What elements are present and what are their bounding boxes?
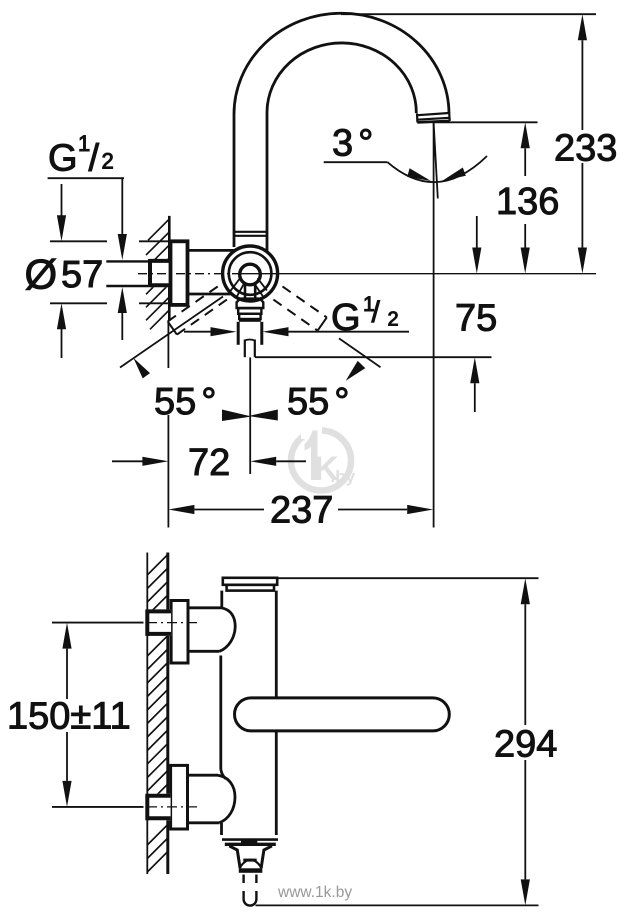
outlet tip tube lower U [244,891,257,906]
svg-text:Ø: Ø [25,251,58,298]
svg-text:www.1k.by: www.1k.by [277,884,352,901]
dimension 294 extension lines [278,577,539,579]
body circle middle [229,252,272,295]
aerator housing walls [229,846,240,868]
phantom swivel right (dashed) [273,286,326,330]
outlet black collar [239,319,261,322]
outlet ring band [238,308,261,314]
wall hatching (side view) [146,219,169,329]
spout arch outer [234,13,449,247]
outlet ring band 2 [239,314,260,319]
G1/2 top arrow down to pipe [118,234,127,260]
aerator bottom ring [239,868,262,873]
dimension 75 upper arrow [476,216,478,248]
left 55-degree arc arrow [133,358,150,379]
Ø57 upper arrow [61,184,63,216]
svg-text:G: G [331,297,361,339]
svg-text:72: 72 [188,442,230,484]
bottom union centerline [52,806,144,808]
wall face extension line down [167,321,169,368]
spout arch inner [267,43,416,251]
body bottom line [222,838,278,841]
svg-text:2: 2 [388,308,399,330]
75 lower extension line [255,356,492,358]
G1/2 mid dimension line with arrows [184,331,212,333]
G1/2 top leader line [48,178,124,234]
svg-text:57: 57 [61,254,103,296]
outlet tip tube upper stub [242,875,244,884]
svg-text:75: 75 [455,298,497,340]
bottom union nut white fill [147,794,171,821]
left 55-degree extension line [120,297,223,368]
dimension Ø57 extension lines [50,241,170,303]
svg-text:233: 233 [554,128,617,170]
bottom union body connection [188,775,236,823]
top union nut white fill [147,609,171,636]
dimension 136 [521,122,530,148]
top union nut [147,609,171,636]
wall hatching (front view) [147,555,168,873]
white fill under pipe [106,261,149,286]
svg-text:/: / [89,137,100,179]
svg-text:2: 2 [102,149,114,174]
svg-text:55°: 55° [154,381,216,423]
dimension 150±11 extension lines [52,622,144,624]
top union escutcheon [171,601,188,664]
union nut (side view) [150,259,170,287]
outlet center block [241,840,257,845]
body circle outer [223,246,278,301]
svg-text:150±11: 150±11 [7,696,131,738]
white fill under flange [171,241,188,305]
bottom union nut [147,794,171,821]
spout joint line upper [234,231,267,233]
svg-text:.by: .by [331,467,356,486]
right 55-degree arc arrow [346,361,366,381]
svg-text:294: 294 [494,724,557,766]
svg-text:3°: 3° [332,123,373,165]
svg-text:237: 237 [270,490,333,532]
horizontal centerline [138,273,232,275]
swivel spokes inside body circle [230,278,267,297]
escutcheon flange (side view) [171,241,188,305]
body cylinder edges [221,591,276,835]
3-degree leader and arc [324,161,388,163]
right 55-degree extension line [339,338,381,367]
spout tip extension line horizontal [434,121,538,123]
watermark ring 1K.by [291,424,356,491]
svg-text:55°: 55° [287,381,349,423]
top union centerline [52,622,144,624]
dimension 294 line and arrows [521,578,530,604]
dimension 237 [168,505,194,514]
dimension 150±11 line and arrows [62,623,71,649]
wall line (side view) [168,216,171,321]
body neck ring [227,585,274,591]
G1/2 top lower arrow up to pipe bottom [118,287,127,313]
white fill under nut [150,259,170,287]
top union body connection [188,608,235,652]
svg-text:/: / [372,296,381,329]
aerator spout tip (side view) [245,340,255,358]
outlet stem below body [245,284,255,300]
body circle inner [240,264,261,285]
aerator dome arc [240,860,262,868]
wall band lines [146,553,148,875]
3-degree slanted stream line [434,122,438,198]
aerator screen bar [243,859,256,862]
spout tip outlet [417,113,450,123]
top extension line [341,13,596,15]
svg-text:G: G [48,137,78,179]
bowtie arrows at vertical reference [222,410,252,422]
svg-text:136: 136 [496,181,559,223]
vertical reference line below outlet [249,357,251,474]
dimension 233 [578,14,587,40]
body top cap [223,578,277,585]
dimension 72 [112,460,143,462]
body tube from flange [188,249,236,252]
phantom swivel left (dashed) [168,287,227,335]
bottom union escutcheon [171,765,188,829]
outlet base block [237,299,264,308]
75 lower arrow [470,357,479,383]
spout joint line lower [234,235,267,237]
Ø57 lower arrow [61,329,63,358]
lever handle [235,698,450,731]
outlet tube walls [238,322,262,345]
supply pipe stub [106,261,148,286]
outlet flange plate [225,843,276,846]
spout tip vertical extension line [433,122,435,527]
